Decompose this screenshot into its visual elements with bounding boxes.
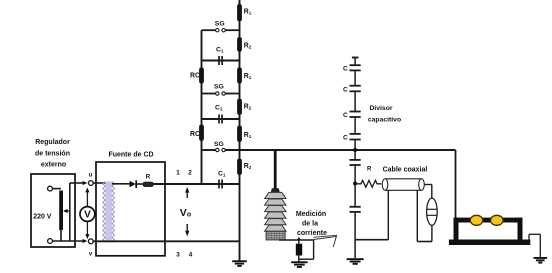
node top terminal: [48, 186, 53, 191]
coax cylinder: [382, 179, 424, 191]
node bottom terminal: [48, 239, 53, 244]
svg-text:Cable coaxial: Cable coaxial: [383, 167, 428, 174]
svg-text:R: R: [367, 167, 372, 173]
svg-text:C: C: [343, 135, 348, 142]
capacitor C (lower 1): [350, 160, 361, 165]
resistor R2 (second): [237, 37, 252, 52]
svg-text:C: C: [343, 86, 348, 93]
variac winding bar: [59, 191, 63, 242]
ground (shunt): [291, 261, 308, 268]
label Divisor capacitivo: [368, 105, 401, 124]
svg-text:C1: C1: [218, 171, 226, 178]
wire right rail: [239, 0, 241, 261]
wire main HV bus: [202, 150, 456, 219]
capacitor C (4): [343, 134, 361, 142]
svg-text:220 V: 220 V: [33, 214, 52, 221]
wire table to ground: [529, 234, 540, 257]
node junction main bus: [353, 148, 357, 152]
label Fuente de CD: [108, 152, 153, 159]
resistor R2 (sixth): [237, 159, 252, 176]
svg-text:Medición: Medición: [296, 211, 326, 218]
spark gap SG1: [202, 21, 240, 32]
capacitor C1 (middle row): [202, 105, 240, 124]
svg-text:Fuente de CD: Fuente de CD: [108, 152, 153, 159]
shunt resistor: [296, 244, 302, 256]
transformer winding: [103, 182, 115, 243]
spark gap SG3: [214, 141, 225, 152]
node v terminal: [88, 239, 93, 258]
node u terminal: [88, 173, 105, 186]
svg-text:de tensión: de tensión: [35, 151, 70, 158]
resistor R (fuente): [143, 173, 153, 186]
svg-text:C1: C1: [216, 47, 224, 54]
svg-text:2: 2: [188, 170, 192, 177]
voltmeter V: [80, 188, 95, 240]
wire left rail: [201, 30, 203, 184]
wire wiper to output: [70, 181, 88, 241]
svg-text:u: u: [89, 173, 93, 179]
table frame: [449, 218, 530, 245]
spark gap SG2: [202, 84, 240, 96]
wire fuente output to ladder: [153, 183, 240, 185]
svg-text:V: V: [84, 210, 91, 221]
label Medicion de la corriente: [296, 211, 327, 237]
insulator top cap: [271, 188, 280, 192]
resistor RC (lower): [190, 125, 204, 142]
svg-text:4: 4: [189, 252, 193, 259]
resistor R1 (third): [237, 67, 252, 83]
ground (right rail bottom): [232, 260, 247, 267]
resistor R2 (fourth): [237, 99, 252, 116]
svg-text:Regulador: Regulador: [35, 139, 70, 146]
wire insulator hanger: [274, 150, 277, 189]
regulator box: [31, 174, 75, 247]
arrow annotation: [314, 235, 337, 247]
svg-text:corriente: corriente: [297, 230, 327, 237]
bushing yellow 2: [491, 215, 504, 225]
wire shunt loop: [279, 237, 314, 262]
Vo arrows: [185, 187, 189, 237]
wire bottom bus: [93, 240, 239, 242]
wire transformer to diode: [112, 183, 130, 185]
svg-text:R1: R1: [244, 132, 252, 139]
node divider top terminal: [352, 57, 359, 59]
resistor R (zigzag): [355, 180, 381, 187]
capacitor C (lower 2): [350, 207, 361, 212]
resistor R1 (top): [237, 4, 252, 22]
resistor RC (upper): [190, 67, 204, 83]
label Regulador de tension externo: [35, 139, 70, 169]
capacitor C (3): [343, 112, 361, 120]
svg-text:C1: C1: [215, 105, 223, 112]
svg-text:R1: R1: [244, 9, 252, 16]
svg-text:R2: R2: [244, 104, 252, 111]
svg-text:RC: RC: [190, 131, 200, 138]
svg-text:C: C: [343, 66, 348, 73]
oscilloscope CT ellipse: [427, 198, 438, 241]
svg-text:SG: SG: [214, 84, 224, 91]
resistor R1 (fifth): [237, 126, 252, 143]
wire coax shield right: [417, 190, 432, 241]
svg-text:R: R: [146, 173, 151, 180]
svg-text:R2: R2: [244, 163, 252, 170]
node labels 3 4: [176, 252, 193, 259]
ground (divider): [347, 258, 364, 265]
ground (right): [534, 257, 548, 264]
wire bottom output: [52, 239, 87, 243]
insulator base: [266, 231, 285, 240]
wire coax shield left: [355, 190, 388, 239]
svg-text:RC: RC: [190, 73, 200, 80]
svg-text:R1: R1: [244, 73, 252, 80]
svg-text:SG: SG: [214, 141, 224, 148]
svg-text:3: 3: [176, 252, 180, 259]
label 220 V: [33, 214, 52, 221]
wire divider column: [354, 58, 356, 259]
diode: [130, 180, 144, 188]
capacitor C (2): [343, 86, 361, 94]
svg-text:de la: de la: [302, 221, 318, 228]
node labels 1 2: [176, 170, 192, 177]
capacitor C1 (top row): [202, 47, 240, 66]
label Cable coaxial: [383, 167, 428, 174]
svg-text:SG: SG: [215, 21, 225, 28]
wire coax output: [424, 185, 432, 199]
fuente box: [96, 162, 165, 256]
svg-text:externo: externo: [41, 162, 66, 169]
label Vo: [180, 207, 191, 219]
svg-text:capacitivo: capacitivo: [368, 117, 401, 124]
svg-text:C: C: [343, 112, 348, 119]
svg-text:R2: R2: [244, 43, 252, 50]
capacitor C1 (bottom row): [218, 171, 226, 189]
variac wiper arrow: [63, 209, 70, 213]
label R: [367, 167, 372, 173]
wire terminal to variac: [52, 188, 61, 190]
svg-text:1: 1: [176, 170, 180, 177]
node junction R branch: [353, 182, 357, 186]
insulator sheds: [265, 192, 286, 231]
bushing yellow 1: [470, 215, 483, 225]
capacitor C (1): [343, 65, 361, 72]
svg-text:Divisor: Divisor: [369, 105, 392, 112]
